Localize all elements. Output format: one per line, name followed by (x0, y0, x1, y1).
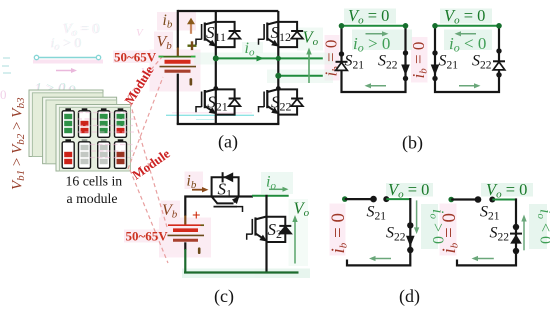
arrow: Vo (a) (308, 52, 310, 83)
svg-text:+: + (192, 208, 201, 224)
svg-text:(c): (c) (214, 286, 234, 307)
svg-text:50~65V: 50~65V (126, 229, 169, 244)
wire: (b) right top line green (435, 25, 499, 27)
ghost cyan line under (a) (166, 114, 254, 116)
svg-text:(d): (d) (399, 286, 420, 307)
svg-text:S1: S1 (218, 180, 233, 201)
cell icon r1c3 (98, 108, 110, 137)
cell icon r1c1 (62, 108, 74, 137)
arrow: bottom current left (d right) (476, 258, 494, 260)
node: S21 top junction (213, 86, 218, 91)
transistor S22 (259, 89, 304, 116)
wire: bottom rail green (c) (184, 271, 299, 273)
arrow: bottom current right (b right) (459, 85, 476, 87)
svg-text:S22: S22 (386, 225, 406, 244)
svg-text:(a): (a) (218, 132, 238, 153)
arrow: io right (c) (269, 188, 284, 190)
cell icon r2c3 (98, 139, 110, 168)
highlight: ib=0 pink blocks (b),(d) (325, 35, 340, 81)
wire: (d) right green segment (492, 199, 516, 201)
switch S21 on (b right): arrow down (432, 50, 437, 55)
node: (d) right start dot green (448, 197, 454, 203)
highlight: (c) battery pink block (159, 218, 211, 258)
svg-text:Vb1 > Vb2 > Vb3: Vb1 > Vb2 > Vb3 (10, 97, 28, 190)
wire: battery top to S1 (184, 197, 212, 216)
svg-text:S21: S21 (439, 53, 459, 72)
wire: right leg segments (277, 11, 279, 124)
node: S22 dots (d left) (407, 222, 413, 228)
arrow: bottom current left (d left) (374, 258, 392, 260)
arrow: io on line 1 (257, 55, 265, 61)
cell icon r1c4 (115, 108, 127, 137)
node: green end dots (339, 23, 345, 29)
transistor S2 (247, 216, 292, 243)
wire: S2 leg upper (265, 195, 267, 216)
cell icon r2c2 (79, 139, 91, 168)
svg-text:io < 0: io < 0 (535, 209, 550, 244)
svg-text:S21: S21 (207, 93, 228, 114)
diode S21 (b left) (336, 61, 348, 63)
ghost pink arrow (56, 70, 73, 72)
wire: (d) right top segment (451, 198, 478, 200)
transistor S1 (horizontal) (212, 172, 243, 212)
svg-text:16 cells in: 16 cells in (66, 174, 123, 189)
svg-text:S22: S22 (378, 53, 398, 72)
label: - (a) (190, 78, 193, 85)
diode S22 (d right) solid (510, 233, 522, 235)
arrow: ib right (c) (192, 189, 204, 191)
wire: (d) left green segment (386, 198, 410, 200)
arrow: bottom current left (b left) (369, 85, 386, 87)
transistor S11 (196, 21, 241, 48)
wire: (b) right loop black (434, 26, 500, 92)
switch S22 on (b left): arrow down (403, 50, 408, 55)
svg-text:S22: S22 (271, 93, 292, 114)
wire: (b) left top line green (342, 25, 406, 27)
node: output tap left leg (213, 55, 219, 61)
wire: (d) right branch (457, 198, 517, 266)
svg-text:Vo = 0: Vo = 0 (348, 6, 389, 27)
node: S22 top dot (d right) (513, 224, 519, 230)
svg-text:S22: S22 (490, 225, 510, 244)
ghost cyan line with end circles (38, 57, 97, 59)
cell icon r2c4 (115, 139, 127, 168)
svg-text:(b): (b) (402, 133, 423, 154)
svg-text:a module: a module (67, 191, 118, 206)
dashed leader lines module->batteries (128, 57, 168, 263)
arrow: io up (d right) (523, 219, 525, 250)
arrow: io right (b left) (366, 33, 385, 35)
label: + (a) (188, 45, 197, 47)
wire: S1 output black (239, 195, 253, 197)
wire: bottom rail (177, 123, 280, 125)
switch S22 on (d left): arrow down (406, 236, 415, 247)
battery Vb (c): plates (168, 215, 205, 240)
svg-text:Vo = 0: Vo = 0 (388, 180, 429, 201)
svg-text:S21: S21 (367, 204, 387, 223)
svg-text:S22: S22 (472, 53, 492, 72)
svg-text:S21: S21 (480, 204, 500, 223)
cell icon r2c1 (62, 139, 74, 168)
wire: left leg segments (215, 11, 217, 124)
ghost pink band under line (33, 60, 103, 64)
svg-text:Module: Module (129, 146, 173, 183)
diode S2 solid overlay (279, 227, 291, 234)
transistor S21 (196, 89, 241, 116)
battery Vb (a): plates (159, 48, 197, 72)
wire: output line 2 (green) (278, 75, 323, 77)
wire: battery bottom to rail (184, 242, 186, 250)
arrow: ib up (a) (190, 24, 192, 34)
label: - (c) (198, 247, 201, 254)
wire: (b) left loop black (340, 26, 406, 92)
svg-text:V: V (136, 27, 144, 39)
highlight: (a) battery pink block (113, 12, 457, 258)
module panel stack (back to front) (29, 90, 131, 171)
wire: left rail lower (from battery -) (177, 74, 179, 124)
node: S21 top dot (b left) (339, 51, 344, 56)
node: output tap right leg (275, 73, 281, 79)
wire: left rail upper (to battery +) (177, 10, 179, 48)
arrow: Vo (c) (294, 220, 296, 264)
svg-text:Vo = 0: Vo = 0 (486, 180, 527, 201)
svg-text:50~65V: 50~65V (114, 50, 157, 65)
transistor S12 (259, 21, 304, 48)
node: S22 top junction (276, 86, 281, 91)
svg-text:0: 0 (0, 87, 7, 102)
wire: output line 1 (green) (216, 57, 323, 59)
wire: (d) left right branch (347, 198, 411, 267)
node: switch S21 open contacts (d right) (475, 196, 482, 203)
svg-text:S2: S2 (268, 220, 283, 241)
wire: S2 leg lower (265, 243, 267, 273)
node: crossover dot right leg line1 (276, 56, 281, 61)
highlight: mint blocks (182, 9, 547, 279)
svg-text:S12: S12 (271, 23, 292, 44)
cell icon r1c2 (79, 108, 91, 137)
svg-text:Vo = 0: Vo = 0 (444, 6, 485, 27)
wire: (d) left top segment (345, 198, 374, 200)
wire: output green (c) (252, 195, 289, 197)
svg-text:S21: S21 (345, 53, 365, 72)
ghost pink dashes over panel (77, 113, 134, 158)
wire: top rail (178, 10, 278, 12)
node: (d) left start dot green (342, 196, 348, 202)
arrow: io left (b right) (459, 33, 476, 35)
diode S22 (b right) (496, 48, 501, 53)
node: switch S21 open contacts (d left) (370, 196, 377, 203)
arrow: io down (d left) (416, 200, 418, 229)
